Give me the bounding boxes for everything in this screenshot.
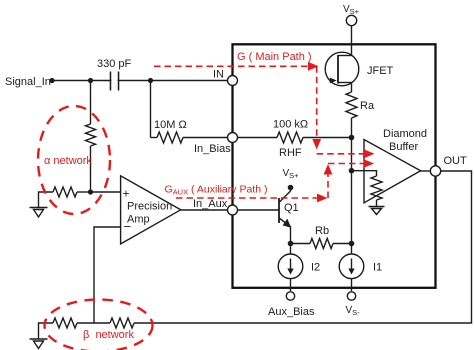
svg-text:VS+: VS+ bbox=[343, 4, 360, 16]
wire I2 to Aux_Bias bbox=[290, 279, 292, 291]
arrow aux path right bbox=[317, 194, 328, 203]
wire alpha resistor right to node bbox=[77, 191, 88, 193]
wire aux path dashed horizontal bbox=[176, 197, 318, 199]
svg-text:Signal_In: Signal_In bbox=[5, 76, 51, 88]
node buffer input junction bbox=[349, 168, 355, 174]
node Q1 collector Vs+ dot bbox=[288, 185, 294, 191]
wire beta middle bbox=[77, 322, 110, 324]
svg-text:β network: β network bbox=[83, 329, 134, 341]
wire Q1 emitter down bbox=[290, 227, 292, 244]
svg-text:Diamond: Diamond bbox=[383, 128, 427, 140]
svg-text:Ra: Ra bbox=[360, 100, 375, 112]
svg-text:100 kΩ: 100 kΩ bbox=[273, 119, 308, 131]
wire alpha branch down bbox=[90, 81, 92, 125]
resistor buffer internal bbox=[371, 176, 382, 200]
wire I1 to Vs- bbox=[351, 279, 353, 291]
wire buffer output to OUT bbox=[421, 170, 431, 172]
resistor 10M bbox=[157, 132, 183, 143]
svg-text:Precision: Precision bbox=[127, 201, 172, 213]
ellipse beta network bbox=[45, 300, 153, 350]
wire In_Bias to 100k bbox=[238, 137, 278, 139]
wire beta left to ground bbox=[39, 323, 54, 339]
svg-text:IN: IN bbox=[213, 69, 224, 81]
pin OUT terminal bbox=[430, 166, 440, 176]
svg-text:VS-: VS- bbox=[346, 305, 361, 317]
wire 100k to junction bbox=[303, 137, 352, 139]
arrow main path down bbox=[312, 139, 321, 150]
svg-text:In_Aux: In_Aux bbox=[193, 198, 228, 210]
ground beta bbox=[30, 339, 48, 349]
resistor beta right bbox=[110, 318, 134, 328]
pin Aux_Bias terminal bbox=[286, 292, 294, 300]
svg-text:10M Ω: 10M Ω bbox=[154, 119, 187, 131]
svg-text:I2: I2 bbox=[311, 262, 320, 274]
current source I2 bbox=[278, 244, 303, 279]
svg-text:I1: I1 bbox=[373, 262, 382, 274]
svg-text:G ( Main Path ): G ( Main Path ) bbox=[237, 51, 312, 63]
wire Signal_In to IN bbox=[52, 80, 232, 82]
transistor JFET bbox=[325, 52, 359, 86]
svg-text:Rb: Rb bbox=[315, 225, 329, 237]
wire main path dashed vertical bbox=[316, 66, 318, 140]
wire amp minus input bbox=[94, 227, 121, 323]
wire alpha resistor to node bbox=[90, 146, 92, 192]
wire main path to buffer bbox=[317, 153, 365, 155]
wire alpha node to amp plus input bbox=[91, 191, 121, 193]
resistor beta left bbox=[53, 318, 77, 328]
svg-text:JFET: JFET bbox=[367, 65, 394, 77]
junction at capacitor branch bbox=[148, 78, 153, 83]
svg-text:In_Bias: In_Bias bbox=[194, 143, 231, 155]
junction at alpha branch bbox=[88, 78, 93, 83]
op-amp Diamond Buffer bbox=[364, 140, 421, 203]
wire to Rb left bbox=[291, 243, 311, 245]
resistor Rb bbox=[310, 239, 333, 249]
node junction Ra/RHF bbox=[349, 135, 355, 141]
transistor Q1 bbox=[238, 188, 292, 228]
node Signal_In dot bbox=[49, 78, 54, 83]
svg-text:Q1: Q1 bbox=[284, 202, 299, 214]
wire to 10M resistor bbox=[151, 137, 158, 139]
IC boundary box bbox=[233, 44, 436, 287]
pin In_Bias terminal bbox=[228, 133, 238, 143]
wire aux path dashed vertical up bbox=[327, 173, 329, 198]
resistor Ra bbox=[346, 92, 357, 118]
svg-text:α network: α network bbox=[44, 155, 92, 167]
resistor RHF 100k bbox=[277, 132, 303, 143]
wire JFET drain to Vs+ bbox=[351, 26, 353, 56]
wire 10M to In_Bias bbox=[183, 137, 232, 139]
svg-text:330 pF: 330 pF bbox=[97, 58, 132, 70]
wire buffer resistor to ground bbox=[376, 200, 378, 207]
svg-text:OUT: OUT bbox=[444, 155, 468, 167]
pin Vs+ terminal bbox=[346, 15, 356, 25]
svg-text:Buffer: Buffer bbox=[389, 141, 418, 153]
wire Rb right to rail bbox=[333, 243, 352, 245]
node alpha junction bbox=[88, 189, 93, 194]
wire alpha resistor to ground bbox=[39, 192, 54, 208]
red dashed group bbox=[38, 51, 375, 350]
wire amp output to In_Aux bbox=[181, 209, 228, 211]
pin Vs- terminal bbox=[347, 292, 355, 300]
resistor alpha horizontal bbox=[53, 187, 77, 197]
resistor alpha vertical bbox=[86, 124, 96, 146]
ellipse alpha network bbox=[38, 106, 110, 214]
wire Ra to junction bbox=[351, 118, 353, 138]
wire main path dashed horizontal bbox=[154, 65, 309, 67]
ground buffer bbox=[369, 207, 385, 215]
capacitor C 330pF bbox=[111, 72, 119, 91]
svg-text:VS+: VS+ bbox=[283, 168, 300, 180]
op-amp Precision Amp bbox=[121, 176, 181, 244]
arrow aux path into buffer bbox=[364, 159, 375, 168]
wire 10M branch down bbox=[150, 81, 152, 138]
ground alpha bbox=[30, 208, 48, 218]
arrow main path into JFET bbox=[308, 62, 319, 71]
svg-text:RHF: RHF bbox=[279, 147, 302, 159]
svg-text:+: + bbox=[123, 187, 130, 201]
wire feedback from beta to OUT bbox=[134, 171, 472, 323]
node emitter junction bbox=[288, 241, 294, 247]
svg-text:GAUX ( Auxiliary Path ): GAUX ( Auxiliary Path ) bbox=[165, 184, 268, 197]
wire junction to buffer internal resistor bbox=[352, 171, 377, 176]
wire main vertical rail down to I1 bbox=[351, 138, 353, 255]
arrow main path into buffer bbox=[364, 149, 375, 158]
svg-text:Aux_Bias: Aux_Bias bbox=[268, 306, 315, 318]
node rail junction at Rb bbox=[349, 241, 355, 247]
current source I1 bbox=[339, 254, 364, 279]
wire aux path to buffer bbox=[328, 163, 365, 165]
pin In_Aux terminal bbox=[228, 205, 238, 215]
arrow aux path up bbox=[324, 164, 333, 175]
svg-text:−: − bbox=[124, 219, 132, 234]
wire JFET source to Ra bbox=[351, 83, 353, 93]
pin IN terminal bbox=[228, 76, 238, 86]
